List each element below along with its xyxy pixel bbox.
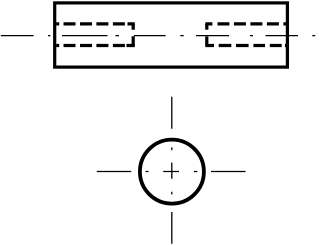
spacer outline (end view circle) — [140, 140, 204, 204]
hidden thread line, left top — [56, 22, 135, 25]
thread depth line, right (dashed vertical) — [205, 24, 208, 46]
hidden thread line, right top — [205, 22, 286, 25]
horizontal centerline (side view, dash-dot) — [1, 35, 315, 37]
hidden thread line, right bottom — [205, 44, 286, 47]
vertical centerline (end view, dash-dot) — [171, 97, 173, 244]
horizontal centerline (end view, dash-dot) — [97, 171, 246, 173]
hidden thread line, left bottom — [56, 44, 135, 47]
thread depth line, left (dashed vertical) — [132, 24, 135, 46]
spacer body outline (side view) — [55, 3, 288, 67]
